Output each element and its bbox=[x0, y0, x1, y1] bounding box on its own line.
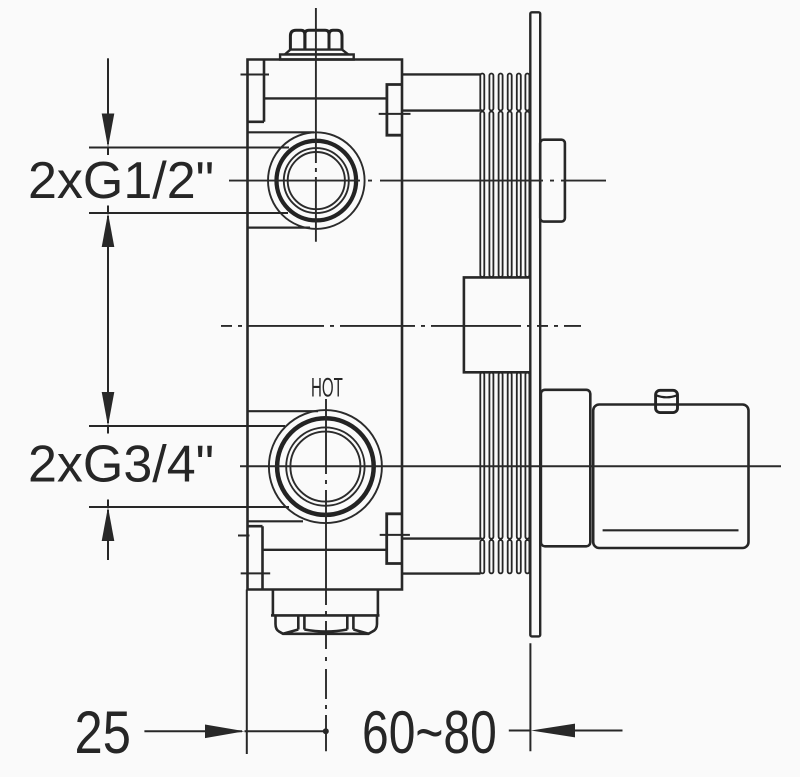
bolt base plate bbox=[280, 54, 354, 59]
tangent line bottom port lower bbox=[248, 520, 304, 522]
dimension 60-80 stub bbox=[509, 730, 530, 732]
dimension G12 extension top bbox=[89, 147, 289, 149]
valve body outline bbox=[248, 60, 403, 590]
bottom collar bbox=[273, 590, 378, 616]
body left flange bottom bbox=[248, 526, 263, 589]
tick above G12 bottom line bbox=[107, 206, 109, 214]
top port thread circle bbox=[284, 148, 349, 213]
top port bold circle bbox=[277, 141, 357, 221]
tick mark right upper bbox=[379, 113, 411, 115]
thread segment S2 bbox=[480, 112, 529, 278]
arrowhead down at G34 top bbox=[102, 392, 115, 426]
thread segment S1 bbox=[480, 74, 529, 111]
dimension G12 extension bottom bbox=[89, 212, 288, 214]
arrowhead up at G12 bottom bbox=[102, 213, 115, 247]
centerline top port horizontal bbox=[229, 180, 606, 182]
bottom port bold circle bbox=[277, 418, 374, 515]
body internal line top bbox=[264, 97, 387, 99]
svg-text:HOT: HOT bbox=[311, 372, 343, 403]
svg-text:2xG1/2": 2xG1/2" bbox=[28, 152, 214, 210]
dimension G34 extension bottom bbox=[89, 506, 289, 508]
arrowhead right at 25 bbox=[205, 725, 245, 739]
bolt hex head bbox=[290, 30, 342, 49]
dimension 25 line bbox=[144, 730, 242, 732]
middle cylinder bbox=[464, 277, 530, 372]
tick mark right lower bbox=[380, 534, 410, 536]
node dot at center bbox=[323, 728, 329, 734]
dimension arrow stem upper bbox=[107, 58, 109, 144]
dimension 60-80 tail bbox=[571, 730, 623, 732]
bottom port bore circle bbox=[290, 432, 360, 502]
tick mark left top bbox=[241, 74, 270, 76]
svg-text:2xG3/4": 2xG3/4" bbox=[28, 436, 214, 494]
svg-text:60~80: 60~80 bbox=[362, 699, 497, 766]
tick below G34 top line bbox=[107, 426, 109, 434]
arrowhead up at G34 bottom bbox=[102, 507, 115, 541]
bottom nut bbox=[276, 615, 378, 633]
arrowhead left at 60-80 bbox=[531, 724, 575, 738]
tick mark left bottom bbox=[241, 572, 271, 574]
body left flange top bbox=[248, 60, 265, 122]
thread segment S3 bbox=[480, 373, 529, 539]
tangent line top port lower bbox=[248, 227, 311, 229]
body internal line bottom bbox=[263, 549, 387, 551]
dimension arrow stem middle bbox=[107, 216, 109, 423]
body right notch bottom bbox=[387, 514, 402, 564]
bottom neck bbox=[402, 539, 481, 574]
tangent line top port upper bbox=[248, 131, 315, 133]
body right notch top bbox=[387, 85, 402, 136]
tick mark left small bbox=[238, 535, 250, 537]
handle grip line bbox=[603, 529, 739, 531]
bottom port thread circle bbox=[286, 427, 364, 505]
handle adapter bbox=[541, 390, 590, 547]
bolt washer bbox=[285, 50, 348, 55]
top neck bbox=[402, 74, 481, 110]
tick above G34 bottom line bbox=[107, 500, 109, 508]
extension line body left bottom bbox=[246, 590, 248, 755]
wall plate bbox=[530, 12, 540, 636]
arrowhead down at G12 top bbox=[102, 114, 115, 148]
centerline bottom port horizontal bbox=[240, 465, 781, 467]
top port outer circle bbox=[268, 132, 365, 229]
bottom nut flange bbox=[271, 614, 380, 617]
centerline bottom port vertical bbox=[325, 399, 327, 751]
cartridge box bbox=[540, 140, 565, 222]
thread segment S4 bbox=[480, 540, 529, 573]
extension line wall plate bottom bbox=[529, 643, 531, 751]
dimension arrow stem lower bbox=[107, 510, 109, 560]
top port bore circle bbox=[288, 152, 345, 209]
centerline top port vertical bbox=[315, 8, 317, 242]
svg-text:25: 25 bbox=[75, 699, 131, 766]
centerline middle horizontal bbox=[221, 325, 581, 327]
handle bbox=[593, 405, 748, 549]
dimension G34 extension top bbox=[89, 425, 285, 427]
dimension 25 to center line bbox=[245, 730, 327, 732]
bottom port outer circle bbox=[269, 410, 382, 523]
handle button bbox=[656, 390, 678, 412]
tick below G12 top line bbox=[107, 148, 109, 156]
tangent line bottom port upper bbox=[248, 410, 319, 412]
